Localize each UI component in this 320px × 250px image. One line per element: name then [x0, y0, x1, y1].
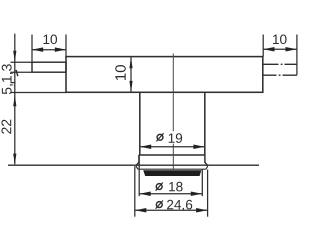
center line of stem	[172, 54, 174, 171]
lip bottom line	[138, 168, 206, 170]
dia24.6 left arrow	[135, 208, 146, 213]
dia 18 dimension line	[139, 193, 202, 195]
22 top arrow (up)	[13, 95, 16, 106]
bar 10 up arrow	[129, 57, 132, 68]
dia19 right arrow	[193, 145, 204, 150]
left 10 arrows	[32, 47, 43, 52]
bar height 10 dimension line	[130, 57, 132, 92]
dia 24.6 extension lines	[134, 166, 136, 217]
right stub dash-dot bottom line	[263, 74, 297, 76]
dim text 24,6	[167, 200, 192, 211]
dia18 right arrow	[191, 192, 202, 197]
dia18 left arrow	[140, 192, 151, 197]
dim text 10 (left stub length)	[43, 35, 57, 45]
left 10: dimension line	[32, 49, 66, 51]
mounting surface long line	[8, 164, 259, 166]
chain: down arrow onto stub top	[13, 51, 16, 62]
lip below mounting line, right	[206, 166, 208, 169]
dia 18 extension lines	[138, 155, 140, 196]
dim text 10 (right stub length)	[273, 35, 287, 45]
bar body (top horizontal rectangle)	[66, 57, 263, 93]
dim text 22 (rotated)	[1, 120, 11, 134]
22 bottom arrow (down)	[13, 154, 16, 165]
lip below mounting line, left	[136, 166, 138, 169]
right 10 arrows	[263, 47, 274, 52]
dia19 left arrow	[140, 145, 151, 150]
oblique ticks on chain points	[16, 70, 18, 76]
flange top line	[139, 154, 205, 156]
dark gasket band	[143, 170, 201, 176]
dim text 18	[169, 182, 182, 192]
right 10: extension lines	[262, 35, 264, 57]
left chain dimension vertical line (3,1,5 and 22)	[14, 34, 16, 165]
diameter symbol for 19	[156, 133, 163, 141]
arrowheads	[13, 47, 297, 213]
chain extension lines	[11, 61, 33, 63]
right stub dash-dot top line	[263, 63, 297, 65]
stem (vertical post) left edge	[139, 92, 141, 155]
dim text 19	[169, 133, 182, 143]
collar left side + chamfer	[136, 155, 139, 165]
right 10: dimension line	[263, 48, 297, 50]
left stub (end of handle)	[32, 62, 66, 72]
collar right side + chamfer	[205, 155, 208, 165]
dia 19 dimension line	[140, 146, 205, 148]
diameter symbol for 24,6	[156, 201, 163, 209]
dia 24.6 dimension line	[135, 209, 208, 211]
diameter symbol for 18	[156, 183, 163, 191]
dim text 5,1,3 (chain, rotated)	[2, 64, 14, 94]
bar 10 down arrow	[129, 81, 132, 92]
dim text 10 (bar height, rotated)	[115, 65, 126, 80]
dia24.6 right arrow	[196, 208, 207, 213]
stem right edge	[204, 92, 206, 155]
left 10: extension lines	[31, 35, 33, 63]
